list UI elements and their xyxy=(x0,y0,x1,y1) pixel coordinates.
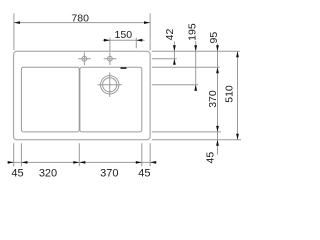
arrow 150 right (outside) xyxy=(136,39,142,42)
svg-text:150: 150 xyxy=(115,29,133,41)
arrow 95/370 shared (up at bowl top) xyxy=(216,67,219,73)
dim 510 vertical line xyxy=(237,51,239,140)
ext line B tap centerline xyxy=(152,58,177,60)
svg-text:95: 95 xyxy=(208,32,220,44)
tap hole 2 xyxy=(108,56,113,61)
ext line C bowl top xyxy=(152,66,220,68)
tap hole 1 crosshair xyxy=(78,53,91,66)
dim 780 extension lines xyxy=(14,14,150,51)
arrow 42 top (down at sink top) xyxy=(173,45,176,51)
arrow 195 bottom (up at drain line) xyxy=(194,85,197,91)
arrow chain at x21.4 (left-pointing) xyxy=(21,161,27,164)
dim 150 line xyxy=(103,39,145,41)
svg-text:320: 320 xyxy=(39,167,57,179)
bottom chain dim line xyxy=(8,161,157,163)
ext line sink bottom xyxy=(152,139,241,141)
svg-text:45: 45 xyxy=(138,167,150,179)
arrow 45 right side (up at sink bottom) xyxy=(216,140,219,146)
arrow 510 top (up at sink top) xyxy=(236,51,239,57)
drain outer circle xyxy=(101,76,119,94)
dim 780 line xyxy=(14,22,150,24)
tap hole 2 crosshair xyxy=(104,53,117,66)
arrow 95 top (down at sink top) xyxy=(216,45,219,51)
bottom chain extension ticks xyxy=(14,143,150,166)
tap hole 1 xyxy=(82,56,87,61)
svg-text:370: 370 xyxy=(207,90,219,108)
svg-text:370: 370 xyxy=(100,167,118,179)
arrow 150 left (outside) xyxy=(104,39,110,42)
dim 42 vertical line xyxy=(173,42,175,65)
arrow 370 bottom (down at bowl bottom) xyxy=(216,126,219,132)
drain inner circle xyxy=(103,78,117,92)
drainer basin xyxy=(21,67,79,132)
svg-text:510: 510 xyxy=(224,85,236,103)
bowl xyxy=(80,67,142,132)
overflow mark on bowl top edge xyxy=(120,67,126,69)
arrow 42 bottom (up at tap line) xyxy=(173,59,176,65)
svg-text:45: 45 xyxy=(11,167,23,179)
arrow 195 top (down at sink top) xyxy=(194,45,197,51)
dim 95/370/45 shared vertical line xyxy=(217,44,219,155)
ext line A sink top xyxy=(152,50,240,52)
dim 195 vertical line xyxy=(195,41,197,91)
ext line bowl bottom xyxy=(152,131,221,133)
svg-text:42: 42 xyxy=(164,29,176,41)
arrow chain at x141.8 right-pointing xyxy=(136,161,142,164)
drain crosshair xyxy=(98,73,123,98)
svg-text:195: 195 xyxy=(187,23,199,41)
arrow 780 right xyxy=(144,21,150,24)
arrow chain at x79.3 right-pointing xyxy=(73,161,79,164)
arrow chain at x150.15 left-pointing xyxy=(150,161,156,164)
dim 150 extension ticks xyxy=(110,38,136,52)
arrow chain at x79.3 left-pointing xyxy=(79,161,85,164)
ext line D drain centerline xyxy=(152,84,198,86)
sink outer rim xyxy=(14,51,151,140)
arrow chain at x13.7 (right-pointing) xyxy=(8,161,14,164)
arrow 780 left xyxy=(14,21,20,24)
svg-text:780: 780 xyxy=(71,13,89,25)
svg-text:45: 45 xyxy=(205,152,217,164)
arrow 510 bottom (down at sink bottom) xyxy=(236,134,239,140)
